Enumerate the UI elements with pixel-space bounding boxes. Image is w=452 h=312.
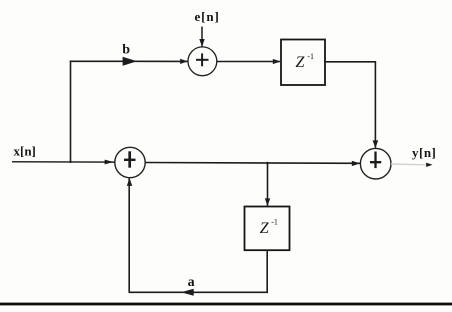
wire down from main path into delay Z2 with arrowhead	[265, 163, 270, 206]
node e[n] label	[195, 9, 220, 24]
svg-text:x[n]: x[n]	[14, 143, 36, 158]
wire feedback from delay Z2 down and left	[129, 250, 267, 292]
wire output faint from adder S3 to arrowhead	[391, 163, 433, 167]
node y[n] output label	[412, 145, 436, 160]
wire feedback up into adder S1 with arrowhead	[127, 178, 132, 293]
wire e[n] down into adder S2 with arrowhead	[199, 27, 204, 47]
svg-text:b: b	[122, 43, 130, 58]
svg-text:y[n]: y[n]	[412, 145, 436, 160]
delay block Z2 (bottom z^-1)	[245, 207, 290, 251]
wire input x[n] to adder S1 with arrowhead	[12, 160, 116, 165]
svg-text:Z: Z	[260, 220, 270, 237]
wire adder S2 to delay Z1 with arrowhead	[217, 59, 281, 64]
arrowhead mid feedback wire (a path)	[181, 289, 194, 296]
adder S1 (left summing node)	[115, 147, 145, 177]
wire vertical branch up from input node	[70, 61, 72, 162]
arrowhead entering adder S2	[180, 59, 187, 64]
node x[n] input label	[14, 143, 36, 158]
adder S2 (top summing node)	[188, 47, 217, 76]
arrowhead mid top wire (b path)	[123, 57, 137, 66]
wire main path adder S1 to adder S3 with arrowhead	[145, 161, 360, 166]
svg-text:-1: -1	[307, 52, 314, 61]
coefficient label a	[188, 275, 195, 290]
wire delay Z1 to adder S3 with corner and arrowhead	[325, 62, 378, 148]
bottom page rule	[0, 303, 452, 306]
adder S3 (output summing node)	[360, 148, 391, 179]
svg-text:e[n]: e[n]	[195, 9, 220, 24]
delay block Z1 (top z^-1)	[281, 40, 325, 86]
svg-text:Z: Z	[296, 54, 306, 71]
coefficient label b	[122, 43, 130, 58]
junction node on main path to feedback branch	[267, 162, 269, 165]
wire top horizontal branch to adder S2	[70, 60, 188, 62]
svg-text:-1: -1	[271, 217, 278, 226]
svg-text:a: a	[188, 275, 195, 290]
junction node at input split	[70, 161, 72, 164]
